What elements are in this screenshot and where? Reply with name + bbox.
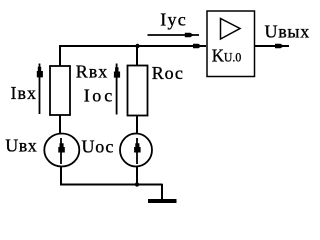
svg-text:Uвых: Uвых [265, 22, 310, 42]
svg-text:Uвх: Uвх [5, 136, 37, 156]
op-amp U1 (amplifier block Kу.о) [207, 11, 255, 77]
current arrow Iвх [37, 64, 43, 115]
svg-text:Iвх: Iвх [11, 83, 38, 103]
current arrow Iос [114, 64, 120, 115]
svg-text:Iус: Iус [160, 10, 187, 30]
wire: Rвх bottom to source Uвх [59, 115, 61, 134]
wire: output of amplifier [254, 44, 289, 49]
wire: Rос bottom to source Uос [136, 115, 138, 134]
arrowhead: signal arrow entering amplifier input [193, 44, 201, 49]
current arrow Iус [148, 33, 200, 37]
wire: source Uвх bottom to ground net [60, 167, 62, 185]
resistor Rос [128, 66, 148, 116]
wire: top horizontal net from Rвх top to amplifier input [59, 45, 206, 47]
svg-text:Uос: Uос [82, 137, 115, 157]
wire: vertical drop from junction to Rос [136, 46, 138, 66]
ground [148, 199, 177, 203]
wire: source Uос bottom to ground net [136, 167, 138, 185]
svg-text:Iос: Iос [84, 86, 115, 106]
wire: bottom horizontal ground net [60, 184, 163, 186]
svg-text:Rвх: Rвх [76, 62, 109, 82]
node: junction under Uос [135, 182, 139, 186]
resistor Rвх [50, 66, 70, 115]
node: junction above Rос [135, 44, 139, 48]
source Uос (current source symbol) [120, 134, 152, 167]
wire: ground stub [161, 184, 163, 200]
source Uвх (current source symbol) [44, 134, 79, 167]
wire: vertical drop from top net to Rвх [59, 45, 61, 66]
svg-text:Rос: Rос [152, 63, 184, 83]
